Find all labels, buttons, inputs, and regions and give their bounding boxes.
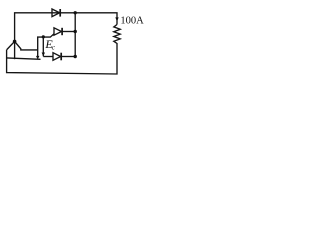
svg-text:100A: 100A <box>120 15 144 26</box>
